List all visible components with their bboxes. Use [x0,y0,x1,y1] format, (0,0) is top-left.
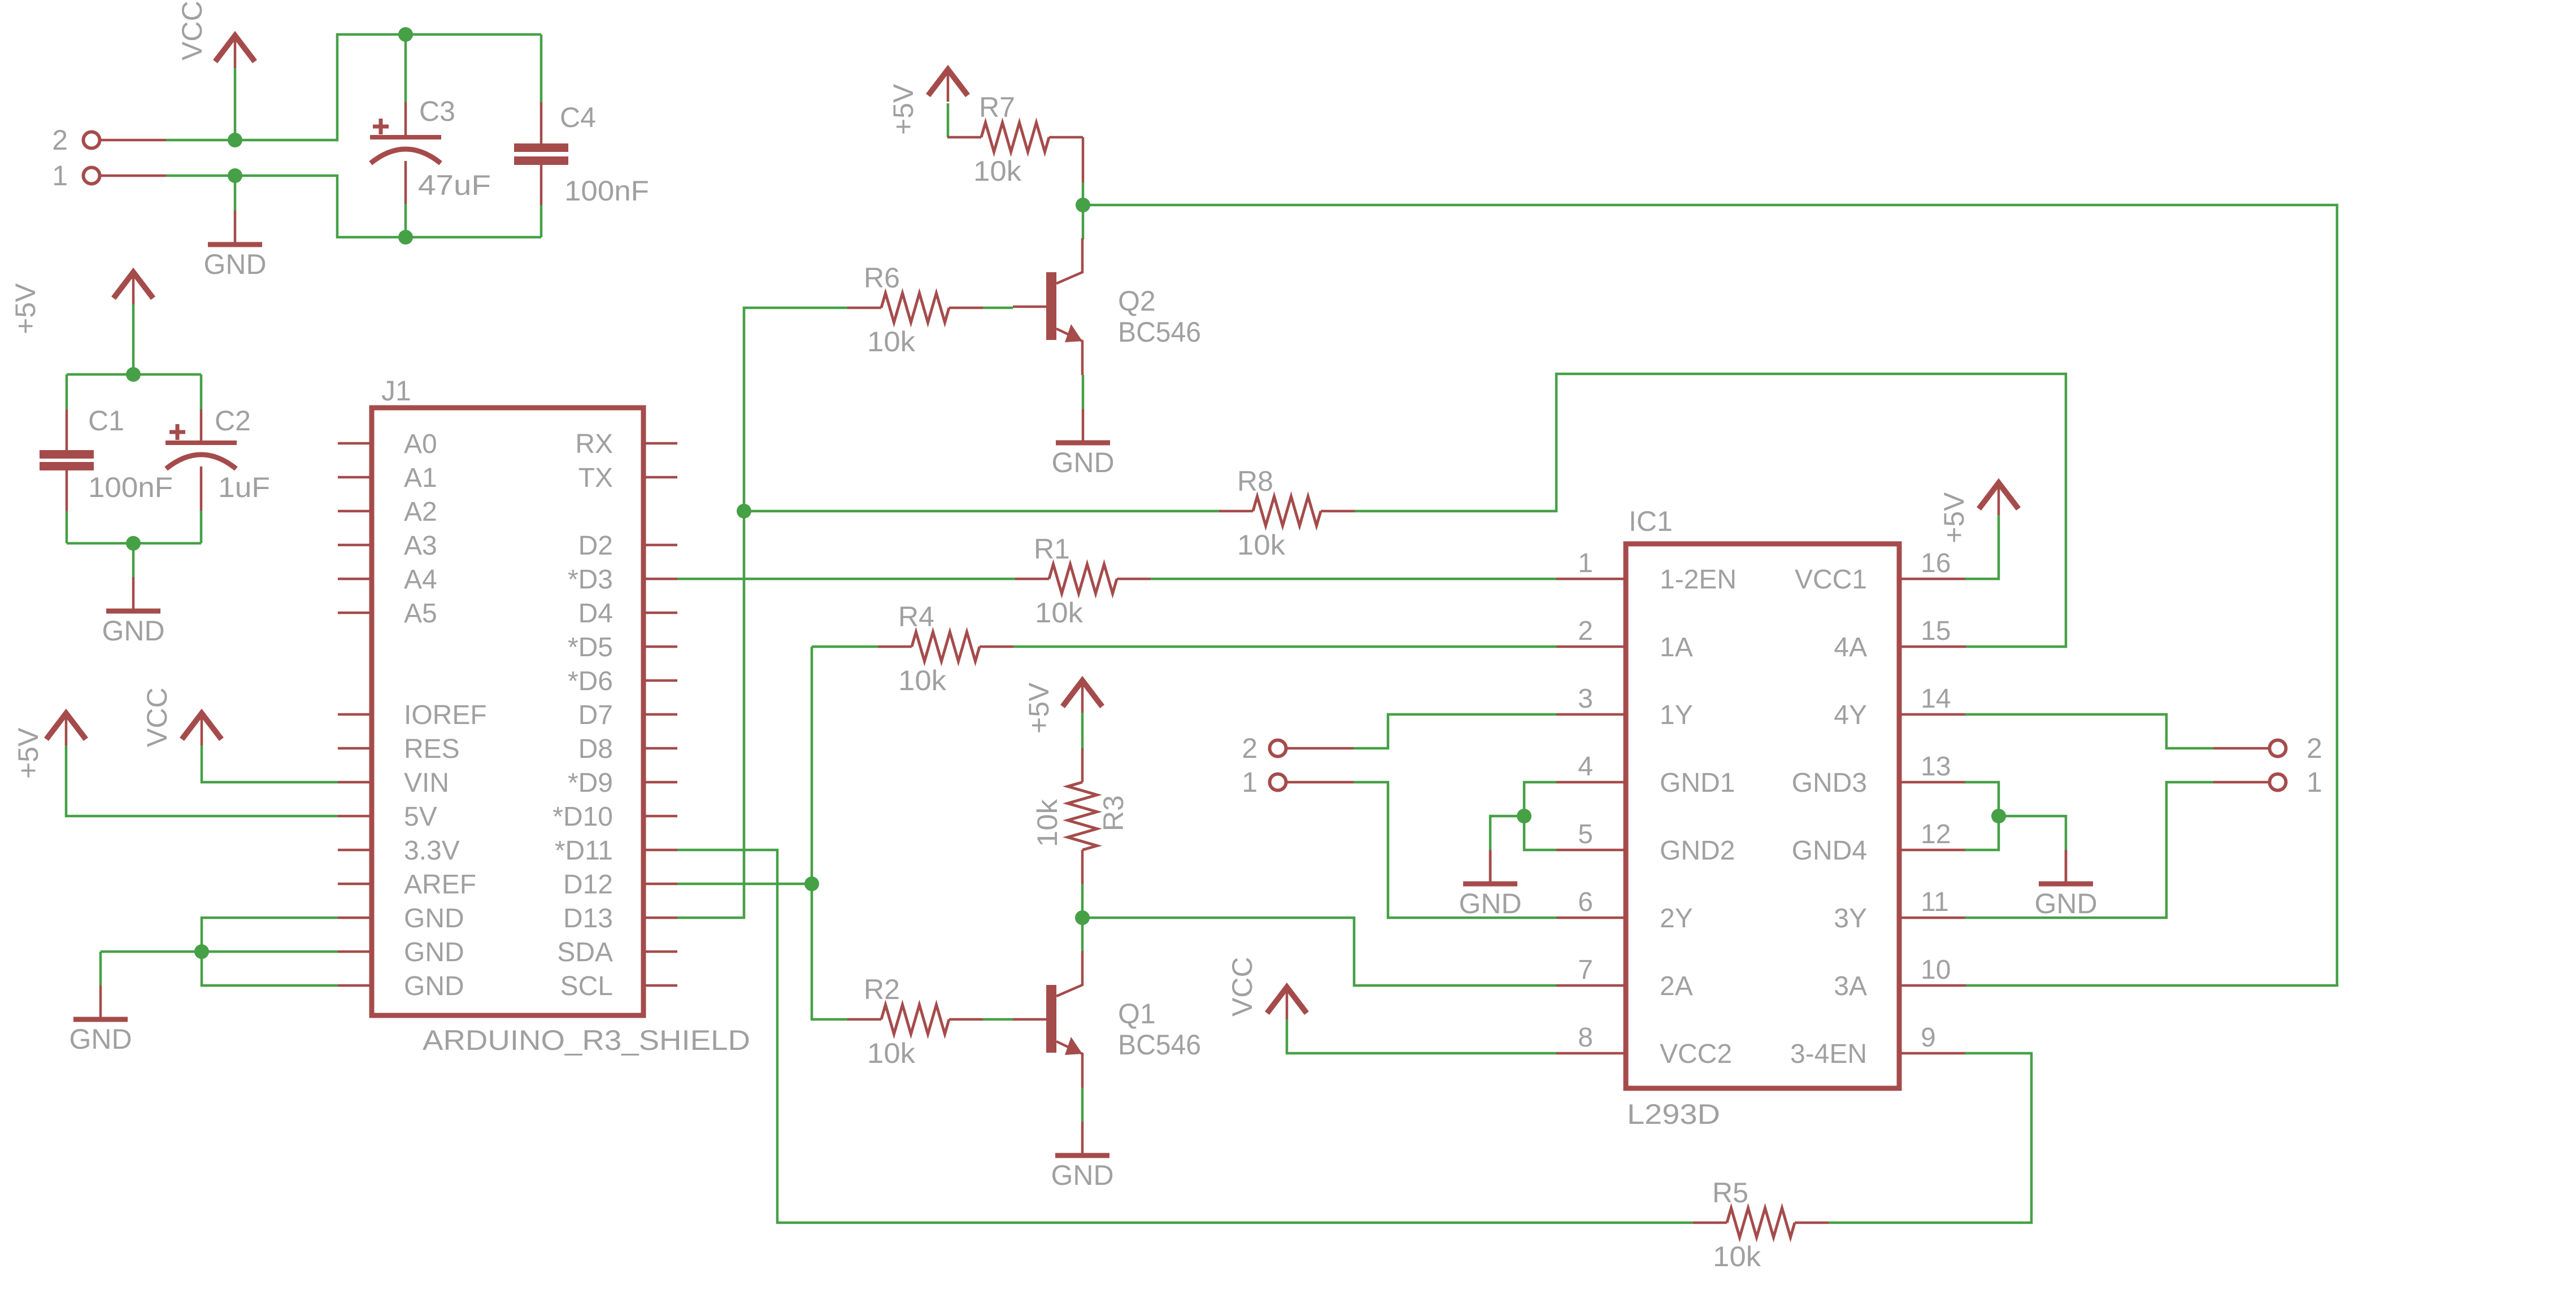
wire R5 to IC1 pin9 (3-4EN) [1829,1053,2031,1223]
svg-text:+5V: +5V [887,84,919,135]
wire collector stub Q1 [1081,918,1084,951]
wire IC1 GND3/GND4 tie (right) [1965,782,1999,850]
wire +5V to IC1 pin16 (VCC1) [1965,515,1999,579]
pin J1 GND [338,950,372,953]
pin IC1 13 GND3 [1899,781,1966,784]
connector pin 2 (top-left) [84,132,100,149]
pin J1 A5 [338,612,372,614]
svg-text:A4: A4 [404,565,437,595]
svg-text:GND2: GND2 [1660,836,1735,866]
svg-text:10k: 10k [867,326,916,357]
pin J1 D7 [643,713,677,716]
pin J1 D8 [643,747,677,750]
svg-text:J1: J1 [381,375,411,407]
resistor R7 10k [947,136,981,139]
pin J1 A3 [338,544,372,547]
svg-text:*D11: *D11 [555,836,613,866]
wire VCC to VIN pin [202,745,338,782]
svg-text:GND: GND [404,971,464,1001]
supply +5V (to 5V pin) [46,713,86,739]
svg-text:+5V: +5V [1023,682,1055,734]
wire VCC net: pin2 to rails [166,34,541,140]
resistor R8 10k [1219,510,1253,513]
ground GND (C1C2 block) [132,577,135,611]
svg-text:GND: GND [1051,447,1114,478]
pin IC1 2 1A [1556,646,1626,648]
svg-text:VCC1: VCC1 [1795,565,1867,595]
svg-text:R3: R3 [1098,795,1129,831]
svg-text:14: 14 [1921,684,1951,714]
svg-text:2A: 2A [1660,971,1693,1001]
svg-text:2: 2 [1578,616,1593,646]
wire R7 down to collector junction [1082,137,1085,182]
pin J1 *D5 [643,646,677,648]
wire pin2 to IC1 pin3 (1Y) [1354,714,1556,748]
svg-text:R1: R1 [1034,533,1070,565]
wire R4 to IC1 pin2 (1A) [1013,646,1556,648]
junction Q1 collector node [1075,910,1090,925]
svg-text:16: 16 [1921,548,1951,578]
svg-text:A1: A1 [404,463,437,493]
svg-text:D8: D8 [578,734,613,764]
wire GND cluster stem [99,952,102,985]
pin IC1 7 2A [1556,984,1626,987]
svg-text:6: 6 [1578,887,1593,917]
pin J1 5V [338,815,372,818]
svg-text:9: 9 [1921,1023,1936,1053]
svg-text:D12: D12 [563,870,613,900]
pin J1 SDA [643,950,677,953]
svg-text:IC1: IC1 [1629,505,1673,537]
wire GND stem C1C2 [132,543,135,577]
svg-text:GND: GND [2034,888,2097,919]
svg-text:4Y: 4Y [1834,700,1867,730]
supply +5V (C1C2 block) [114,272,153,298]
svg-text:VCC2: VCC2 [1660,1039,1732,1069]
svg-text:VCC: VCC [1226,957,1258,1017]
wire GND branch left [1490,816,1524,850]
svg-text:5: 5 [1578,819,1593,849]
svg-text:3: 3 [1578,684,1593,714]
svg-text:VIN: VIN [404,768,449,798]
svg-text:A2: A2 [404,497,437,527]
wire +5V stem to top rail [132,304,135,374]
svg-text:10k: 10k [1237,529,1286,561]
svg-text:BC546: BC546 [1118,316,1201,348]
svg-text:RES: RES [404,734,460,764]
transistor Q1 BC546 [1046,985,1056,1053]
resistor R1 10k [1015,578,1049,581]
pin IC1 6 2Y [1556,917,1626,919]
svg-text:3.3V: 3.3V [404,836,460,866]
svg-text:3Y: 3Y [1834,904,1867,934]
svg-text:47uF: 47uF [418,169,491,201]
IC U1 L293D (IC1) [1626,544,1899,1088]
resistor R5 10k [1693,1222,1727,1224]
pin J1 D12 [643,883,677,886]
pin J1 3.3V [338,849,372,852]
supply VCC (to VIN pin) [182,713,221,739]
pin J1 D13 [643,917,677,919]
svg-text:C3: C3 [419,95,455,127]
svg-text:1: 1 [1242,766,1257,798]
pin J1 AREF [338,883,372,886]
svg-text:ARDUINO_R3_SHIELD: ARDUINO_R3_SHIELD [423,1024,750,1056]
svg-text:C2: C2 [215,405,251,437]
wire R4 vertical [811,647,813,884]
svg-text:GND: GND [69,1023,132,1055]
svg-text:D7: D7 [578,700,613,730]
svg-text:Q2: Q2 [1118,285,1156,317]
svg-text:*D9: *D9 [568,768,613,798]
pin IC1 3 1Y [1556,713,1626,716]
wire R2 to Q1 base [983,1018,1013,1021]
ground GND (IC1 right) [2065,850,2068,884]
ground GND (IC1 left) [1489,850,1492,884]
svg-text:10k: 10k [867,1037,916,1069]
pin J1 D2 [643,544,677,547]
pin J1 GND [338,917,372,919]
pin IC1 10 3A [1899,984,1966,987]
pin IC1 8 VCC2 [1556,1052,1626,1055]
pin J1 D4 [643,612,677,614]
connector J1 ARDUINO_R3_SHIELD [372,408,643,1015]
junction C3 bottom [398,230,413,245]
capacitor C2 1uF (polarized) [200,374,203,409]
junction C1C2 top [126,367,141,382]
wire VCC to IC1 pin8 (VCC2) [1287,1019,1556,1053]
pin IC1 11 3Y [1899,917,1966,919]
ground GND (Q1) [1081,1122,1084,1155]
svg-text:10k: 10k [1713,1241,1761,1272]
wire pin1 to IC1 pin6 (2Y) [1354,782,1556,918]
svg-text:10k: 10k [1035,597,1084,629]
svg-text:GND: GND [203,248,266,280]
wire top rail C1C2 [67,373,201,376]
pin J1 A2 [338,510,372,513]
junction D12/R4/R2 [804,876,819,891]
supply +5V (IC1 VCC1) [1979,483,2018,509]
svg-text:4A: 4A [1834,633,1867,662]
svg-text:TX: TX [578,463,613,493]
svg-text:SCL: SCL [560,971,613,1001]
svg-text:10k: 10k [1032,799,1063,847]
svg-text:+5V: +5V [1938,492,1970,543]
junction VCC [228,133,242,147]
wire bottom rail C1C2 [67,542,201,545]
svg-text:R5: R5 [1712,1177,1748,1209]
wire long top net to IC1 pin10 (3A) [1083,205,2337,985]
junction C3 top [398,27,413,42]
pin J1 *D11 [643,849,677,852]
wire +5V to R3 [1081,713,1084,748]
svg-text:GND: GND [1459,888,1521,919]
svg-text:*D3: *D3 [568,565,613,595]
pin J1 *D6 [643,679,677,682]
wire GND cluster to J1 GND pins [202,918,338,985]
resistor R2 10k [847,1018,881,1021]
pin IC1 15 4A [1899,646,1966,648]
capacitor C4 100nF [540,34,543,102]
svg-text:A3: A3 [404,531,437,561]
pin J1 SCL [643,984,677,987]
svg-text:11: 11 [1921,887,1949,917]
svg-text:R7: R7 [979,91,1015,123]
wire +5V to R7 [947,103,950,137]
svg-text:L293D: L293D [1627,1098,1720,1130]
svg-text:2Y: 2Y [1660,904,1693,934]
svg-text:2: 2 [2307,732,2322,764]
svg-text:C4: C4 [560,102,596,133]
svg-text:1-2EN: 1-2EN [1660,565,1737,595]
svg-text:GND1: GND1 [1660,768,1735,798]
svg-text:1: 1 [2307,766,2322,798]
junction D13/R8 [737,504,751,518]
svg-text:R6: R6 [864,262,900,294]
svg-text:R2: R2 [864,974,900,1005]
ground GND (top-left) [234,211,237,245]
junction C1C2 bottom [126,536,141,551]
pin J1 *D3 [643,578,677,581]
supply +5V (R3) [1063,681,1102,706]
svg-text:*D6: *D6 [568,666,613,696]
transistor Q2 BC546 [1046,272,1056,340]
svg-text:D13: D13 [563,904,613,934]
svg-text:GND: GND [404,904,464,934]
pin IC1 14 4Y [1899,713,1966,716]
svg-text:VCC: VCC [176,1,208,60]
wire collector stub Q2 [1082,205,1085,239]
svg-text:2: 2 [1242,732,1257,764]
svg-text:10: 10 [1921,955,1951,985]
wire IC1 pin14 (4Y) to pin 2 right [1965,714,2213,748]
junction Q2 collector node [1076,198,1090,212]
wire Q1 emitter to GND [1081,1088,1084,1122]
svg-text:GND: GND [404,937,464,967]
svg-text:BC546: BC546 [1118,1029,1201,1061]
svg-text:10k: 10k [898,665,947,696]
svg-text:100nF: 100nF [564,175,649,207]
svg-text:100nF: 100nF [88,472,173,503]
wire D13 net to R6/R8 vertical [677,308,847,918]
wire D3 net to R1 [677,578,1015,581]
pin J1 A4 [338,578,372,581]
svg-text:4: 4 [1578,752,1593,782]
svg-text:+5V: +5V [10,283,41,334]
pin J1 GND [338,984,372,987]
supply VCC (top-left) [215,36,255,62]
wire R4 left connection [812,646,878,648]
svg-text:RX: RX [575,429,613,459]
svg-text:1Y: 1Y [1660,700,1693,730]
junction GND left [1517,809,1531,823]
wire IC1 GND1/GND2 tie (left) [1524,782,1556,850]
pin J1 VIN [338,781,372,784]
wire R8 branch [744,510,1219,513]
pin IC1 4 GND1 [1556,781,1626,784]
pin J1 A0 [338,442,372,445]
wire junction to IC1 pin7 (2A) [1082,918,1556,985]
wire R2 vertical [812,884,847,1019]
connector pin 1 (motor right) [2213,781,2270,784]
supply VCC (to IC1 VCC2) [1267,987,1307,1013]
wire R8 to IC1 pin15 (4A) [1355,374,2066,647]
pin J1 IOREF [338,713,372,716]
svg-text:R8: R8 [1237,465,1273,497]
svg-text:13: 13 [1921,752,1951,782]
pin IC1 5 GND2 [1556,849,1626,852]
supply +5V (R7) [928,69,968,95]
pin J1 A1 [338,476,372,479]
svg-text:A5: A5 [404,599,437,629]
wire GND net: pin1 to bottom rail [166,176,541,237]
svg-text:R4: R4 [898,601,934,633]
junction GND cluster [194,944,209,959]
connector pin 2 (motor left) [1270,740,1286,757]
resistor R3 10k (vertical) [1081,748,1084,782]
pin J1 RES [338,747,372,750]
svg-text:1uF: 1uF [218,472,270,503]
svg-text:10k: 10k [973,155,1022,187]
capacitor C1 100nF [66,374,68,409]
capacitor C3 47uF (polarized) [404,34,407,102]
wire GND branch right [1999,816,2066,850]
pin IC1 16 VCC1 [1899,578,1966,581]
svg-text:*D10: *D10 [552,802,613,832]
svg-text:12: 12 [1921,819,1951,849]
svg-text:*D5: *D5 [568,633,613,662]
svg-text:8: 8 [1578,1023,1593,1053]
svg-text:GND4: GND4 [1792,836,1867,866]
resistor R6 10k [847,307,881,309]
wire R1 to IC1 pin1 (1-2EN) [1151,578,1556,581]
connector pin 1 (motor left) [1270,774,1286,791]
svg-text:Q1: Q1 [1118,998,1156,1030]
svg-text:15: 15 [1921,616,1951,646]
svg-text:IOREF: IOREF [404,700,487,730]
svg-text:D2: D2 [578,531,613,561]
svg-text:3-4EN: 3-4EN [1790,1039,1867,1069]
wire D12 net to junction [677,883,812,886]
pin J1 *D10 [643,815,677,818]
svg-text:7: 7 [1578,955,1593,985]
svg-text:1: 1 [52,160,68,191]
connector pin 2 (motor right) [2213,747,2270,750]
connector pin 1 (top-left) [84,168,100,184]
wire +5V to 5V pin [66,745,338,816]
wire GND stem [234,176,237,211]
svg-text:C1: C1 [88,405,124,437]
svg-text:VCC: VCC [141,687,173,747]
svg-text:5V: 5V [404,802,437,832]
svg-text:GND: GND [102,615,164,647]
svg-text:2: 2 [52,124,68,156]
svg-text:1A: 1A [1660,633,1693,662]
wire R3 bottom to collector junction [1081,884,1084,918]
wire R6 to Q2 base [983,307,1013,309]
pin IC1 1 1-2EN [1556,578,1626,581]
svg-text:+5V: +5V [12,727,44,779]
pin J1 RX [643,442,677,445]
junction GND branch [228,168,242,183]
ground GND (bottom-left) [99,985,102,1019]
svg-text:GND3: GND3 [1792,768,1867,798]
svg-text:GND: GND [1051,1159,1113,1191]
ground GND (Q2) [1082,409,1085,443]
wire Q2 emitter to GND [1082,375,1085,409]
svg-text:3A: 3A [1834,971,1867,1001]
resistor R4 10k [878,646,912,648]
pin J1 TX [643,476,677,479]
wire IC1 pin11 (3Y) to pin 1 right [1965,782,2213,918]
svg-text:SDA: SDA [557,937,613,967]
svg-text:D4: D4 [578,599,613,629]
pin IC1 12 GND4 [1899,849,1966,852]
wire D11 net down to R5 row [677,850,1693,1223]
svg-text:1: 1 [1578,548,1593,578]
pin J1 *D9 [643,781,677,784]
pin IC1 9 3-4EN [1899,1052,1966,1055]
svg-text:A0: A0 [404,429,437,459]
junction GND right [1991,809,2006,823]
wire VCC stem [234,68,237,140]
svg-text:AREF: AREF [404,870,476,900]
